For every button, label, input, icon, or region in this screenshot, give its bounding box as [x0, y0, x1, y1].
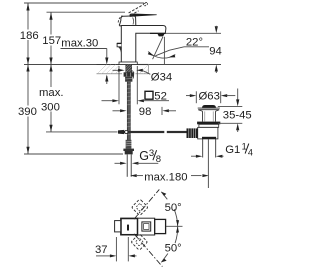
washer below nut	[125, 77, 132, 82]
svg-text:37: 37	[95, 244, 108, 256]
deck top reference line C	[24, 64, 221, 66]
up arrow below deck	[106, 76, 108, 84]
svg-text:52: 52	[154, 90, 167, 102]
lower 50 leader	[161, 254, 168, 263]
svg-text:Ø34: Ø34	[151, 71, 172, 83]
hose crimp nut	[123, 149, 134, 151]
extension lines	[115, 237, 117, 261]
body bottom dark band	[202, 137, 216, 139]
waste body	[198, 127, 218, 138]
aerator	[150, 32, 165, 34]
square symbol for 52	[145, 91, 153, 99]
svg-text:max.180: max.180	[144, 171, 187, 183]
svg-text:8: 8	[156, 154, 161, 165]
svg-text:35-45: 35-45	[223, 109, 252, 121]
arrowheads on L2	[49, 12, 52, 132]
O63 extension lines	[195, 91, 197, 103]
raised lever knob (dashed ellipse)	[143, 2, 148, 7]
svg-text:max.30: max.30	[61, 37, 98, 49]
deck section right hatch	[136, 65, 149, 74]
lever boss	[119, 16, 136, 26]
hook at end of line A	[144, 3, 146, 4]
vertical spray line	[163, 37, 165, 65]
dashed diamond upper	[131, 199, 148, 216]
50deg swing line upper (dash-dot)	[134, 189, 159, 219]
side tab on body	[117, 44, 121, 47]
angled spray line 22deg	[153, 37, 163, 59]
svg-text:186: 186	[20, 30, 39, 42]
ref line B (lever top level)	[47, 11, 126, 13]
svg-text:22°: 22°	[186, 36, 203, 48]
raised lever (dashed)	[129, 5, 144, 13]
mounting nut under deck	[124, 72, 134, 76]
lever handle (side view, solid)	[130, 14, 157, 17]
plug cap (dark lens)	[202, 105, 216, 108]
inner square (cartridge)	[142, 222, 151, 231]
hose threaded end G3/8	[126, 140, 132, 149]
extension lines from plate	[118, 66, 120, 104]
deck section left hatch	[97, 65, 123, 74]
seal below washer	[199, 124, 219, 127]
dashed diamond lower	[131, 234, 148, 251]
angle arc with arrows	[148, 52, 175, 59]
svg-text:94: 94	[209, 46, 222, 58]
ref line A (top of raised lever)	[24, 2, 144, 4]
pull rod in pipe	[207, 139, 209, 188]
spout underside thin extension to 94 dim	[165, 32, 221, 34]
arrowheads on L1	[26, 3, 29, 154]
svg-text:390: 390	[18, 106, 37, 118]
spout axis tick	[161, 107, 163, 115]
ref line D (hose connection level)	[46, 131, 118, 133]
shank through deck (hatched dark)	[126, 65, 132, 73]
washer (dark)	[197, 122, 220, 125]
vertical to down arrow	[106, 49, 108, 59]
arc middle arrowheads	[176, 220, 179, 226]
left tab (spout tip)	[115, 221, 121, 232]
underline of max.30	[61, 48, 107, 50]
dim line 186/390 vertical	[27, 3, 29, 154]
svg-text:98: 98	[139, 106, 152, 118]
tail pipe	[202, 139, 204, 158]
tube below nut	[127, 154, 131, 176]
lever knob rect	[155, 219, 166, 233]
pivot tick	[127, 225, 129, 231]
svg-text:50°: 50°	[165, 243, 182, 255]
rod clamp end	[118, 130, 124, 134]
neck cylinder	[203, 111, 216, 121]
base plate	[119, 62, 137, 65]
centerline to right	[166, 225, 183, 227]
ref line E (hose end level)	[24, 153, 123, 155]
faucet body outline	[121, 26, 166, 63]
boss raised outline (dashed arc)	[118, 16, 122, 23]
dim line + outside arrows	[96, 255, 111, 257]
body outline	[121, 218, 155, 235]
svg-text:G1: G1	[225, 144, 240, 156]
braided hose vertical	[127, 82, 130, 140]
svg-text:max.: max.	[39, 87, 63, 99]
flange disc	[198, 107, 220, 109]
knurled side knob	[187, 128, 198, 138]
svg-text:157: 157	[42, 35, 61, 47]
50deg swing line lower (dash-dot)	[134, 234, 162, 267]
pop-up rod horizontal	[118, 131, 164, 133]
rod ball joint	[125, 130, 128, 133]
O63 dim arrows	[186, 95, 190, 97]
svg-text:300: 300	[41, 102, 60, 114]
boss inner detail arc	[132, 18, 135, 25]
svg-text:50°: 50°	[165, 202, 182, 214]
22deg leader	[184, 46, 209, 48]
upper 50 leader	[161, 192, 167, 200]
angle arc	[174, 209, 178, 243]
svg-text:Ø63: Ø63	[199, 90, 220, 102]
svg-text:G: G	[139, 149, 149, 163]
thick left section of body	[121, 219, 138, 235]
svg-text:4: 4	[248, 147, 253, 157]
pop-up rod upper hook	[132, 71, 134, 79]
